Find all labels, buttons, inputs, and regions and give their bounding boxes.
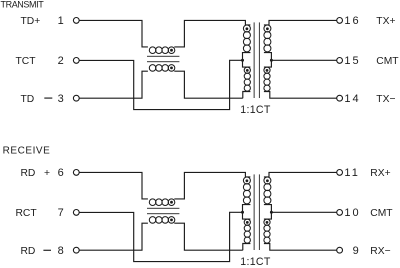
svg-text:CMT: CMT — [370, 208, 393, 219]
choke T1 core — [147, 56, 179, 57]
pin 7 terminal (RCT) — [73, 210, 79, 216]
pin 2 terminal (TCT) — [73, 58, 79, 64]
pin 14 terminal (TX-) — [337, 95, 343, 101]
transformer T4 secondary lower polarity dot — [266, 221, 269, 224]
wire TD+ pin 1 to choke T1 top winding — [79, 20, 148, 47]
svg-text:8: 8 — [58, 245, 64, 257]
transformer T4 core — [254, 174, 255, 250]
wire RD+ pin 6 to choke T3 top winding — [79, 172, 148, 199]
svg-text:RCT: RCT — [16, 208, 38, 219]
transformer T2 secondary upper polarity dot — [266, 27, 269, 30]
wire primary winding interconnect / center tap stub — [243, 205, 251, 220]
wire secondary top to pin 11 (RX+) — [264, 172, 337, 177]
common-mode choke T1 bottom winding — [149, 65, 156, 72]
wire choke T3 bottom winding to transformer T4 primary bottom — [174, 223, 243, 250]
wire secondary bottom to pin 14 (TX-) — [264, 92, 337, 99]
transformer T4 primary lower polarity dot — [246, 221, 249, 224]
wire secondary center tap to pin 15 (CMT) — [271, 59, 336, 61]
junction primary center tap — [241, 211, 244, 214]
pin 3 terminal (TD-) — [73, 95, 79, 101]
choke T3 top winding polarity dot — [170, 201, 173, 204]
svg-text:RX+: RX+ — [370, 168, 390, 179]
transformer T2 secondary upper winding — [264, 25, 271, 32]
wire RCT pin 7 center-tap run — [79, 212, 242, 261]
pin 9 terminal (RX-) — [337, 247, 343, 253]
transformer T4 secondary upper winding — [264, 177, 271, 184]
transformer T4 secondary upper polarity dot — [266, 179, 269, 182]
wire TCT pin 2 center-tap run — [79, 60, 242, 109]
label TD- minus dash — [44, 98, 52, 99]
svg-text:1: 1 — [58, 15, 64, 27]
choke T1 top winding polarity dot — [170, 49, 173, 52]
wire choke T1 bottom winding to transformer T2 primary bottom — [174, 71, 243, 98]
transformer T4 primary upper polarity dot — [246, 179, 249, 182]
transformer T2 primary upper polarity dot — [246, 27, 249, 30]
svg-text:6: 6 — [58, 167, 64, 179]
common-mode choke T3 bottom winding — [149, 217, 156, 224]
pin 15 terminal (CMT) — [337, 58, 343, 64]
svg-text:10: 10 — [344, 207, 360, 219]
pin 8 terminal (RD-) — [73, 247, 79, 253]
svg-text:CMT: CMT — [376, 56, 399, 67]
choke T3 bottom winding polarity dot — [170, 219, 173, 222]
common-mode choke T1 top winding — [149, 47, 156, 54]
wire secondary winding interconnect / center tap stub — [264, 205, 272, 220]
svg-text:TD: TD — [21, 94, 35, 105]
wire primary lower winding to bottom rail — [243, 244, 251, 251]
wire choke T3 top winding to transformer T4 primary top — [174, 172, 250, 199]
pin 6 terminal (RD+) — [73, 170, 79, 176]
svg-text:TX−: TX− — [376, 94, 395, 105]
svg-text:TRANSMIT: TRANSMIT — [1, 0, 45, 9]
svg-text:TX+: TX+ — [376, 16, 395, 27]
transformer T2 primary upper winding — [243, 25, 250, 32]
svg-text:7: 7 — [58, 207, 64, 219]
transformer T4 primary upper winding — [243, 177, 250, 184]
transformer T4 secondary lower winding — [264, 219, 270, 225]
common-mode choke T3 top winding — [149, 199, 156, 206]
svg-text:2: 2 — [58, 55, 64, 67]
wire RD- pin 8 to choke T3 bottom winding — [79, 223, 148, 250]
label RD- minus dash — [43, 250, 51, 251]
svg-text:TD+: TD+ — [21, 16, 41, 27]
svg-text:1:1CT: 1:1CT — [240, 256, 271, 268]
pin 1 terminal (TD+) — [73, 18, 79, 24]
transformer T4 primary lower winding — [244, 219, 250, 225]
svg-text:16: 16 — [344, 15, 360, 27]
svg-text:15: 15 — [344, 55, 360, 67]
wire choke T1 top winding to transformer T2 primary top — [174, 20, 250, 47]
wire secondary top to pin 16 (TX+) — [264, 20, 337, 25]
transformer T2 core — [254, 22, 255, 98]
pin 10 terminal (CMT) — [337, 210, 343, 216]
choke T1 bottom winding polarity dot — [170, 67, 173, 70]
choke T3 core — [147, 208, 179, 209]
wire TD- pin 3 to choke T1 bottom winding — [79, 71, 148, 98]
svg-text:14: 14 — [344, 93, 360, 105]
pin 16 terminal (TX+) — [337, 18, 343, 24]
transformer T2 secondary lower winding — [264, 67, 270, 73]
svg-text:RD: RD — [21, 168, 36, 179]
svg-text:RECEIVE: RECEIVE — [3, 145, 51, 156]
junction primary center tap — [241, 59, 244, 62]
svg-text:RD: RD — [21, 246, 36, 257]
svg-text:11: 11 — [344, 167, 360, 179]
transformer T2 primary lower polarity dot — [246, 69, 249, 72]
svg-text:+: + — [44, 168, 50, 179]
junction secondary center tap — [270, 59, 273, 62]
svg-text:9: 9 — [353, 245, 359, 257]
wire secondary bottom to pin 9 (RX-) — [264, 244, 337, 251]
junction secondary center tap — [270, 211, 273, 214]
svg-text:1:1CT: 1:1CT — [240, 104, 271, 116]
pin 11 terminal (RX+) — [337, 170, 343, 176]
wire primary winding interconnect / center tap stub — [243, 53, 251, 68]
svg-text:3: 3 — [58, 93, 64, 105]
wire primary lower winding to bottom rail — [243, 92, 251, 99]
transformer T2 secondary lower polarity dot — [266, 69, 269, 72]
transformer T2 primary lower winding — [244, 67, 250, 73]
svg-text:RX−: RX− — [370, 246, 390, 257]
svg-text:TCT: TCT — [16, 56, 37, 67]
wire secondary winding interconnect / center tap stub — [264, 53, 272, 68]
wire secondary center tap to pin 10 (CMT) — [271, 211, 336, 213]
